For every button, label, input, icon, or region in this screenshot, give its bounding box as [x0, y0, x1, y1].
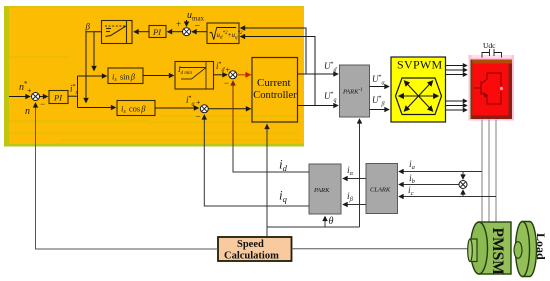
inverter block	[469, 55, 515, 121]
hexagon space vector diagram	[396, 78, 442, 115]
wire iq feedback PARK to iq* junction	[204, 115, 309, 206]
svg-text:PARK: PARK	[313, 187, 330, 194]
coupling between PMSM and load	[514, 242, 522, 259]
sqrt(ud^2+uq^2) block	[207, 23, 243, 44]
wire iq* junction to current controller	[209, 108, 251, 110]
svg-text:−: −	[196, 112, 201, 122]
wire is* split vertical	[77, 76, 79, 108]
current controller block	[252, 58, 298, 123]
svg-text:PI: PI	[152, 27, 162, 37]
wire Ub* PARK-1 to SVPWM	[370, 109, 390, 111]
speed calculation block	[218, 237, 292, 262]
CLARK block	[366, 164, 398, 214]
svg-text:Speed: Speed	[237, 239, 264, 250]
theta wire horizontal	[267, 226, 360, 228]
wire PI to saturation block	[134, 31, 149, 33]
saturation limiter block (beta)	[102, 21, 133, 44]
svg-text:Current: Current	[257, 77, 291, 89]
current sensor junction ib	[459, 172, 467, 197]
PMSM motor body	[471, 222, 512, 274]
wire junction to PI	[168, 31, 183, 33]
wire Ua* PARK-1 to SVPWM	[370, 86, 390, 88]
svg-text:−: −	[195, 21, 201, 32]
phase line c	[495, 120, 497, 226]
svg-text:CLARK: CLARK	[370, 187, 391, 194]
theta wire to PARK-1	[359, 119, 361, 227]
svg-text:PMSM: PMSM	[489, 228, 506, 276]
wire Uq* CC to PARK-1	[298, 105, 339, 107]
wire id* junction to current controller (red arrow)	[237, 74, 251, 76]
SVPWM block	[391, 57, 446, 122]
wire Uq* feedback into sqrt (bottom)	[241, 37, 316, 106]
svg-text:+: +	[196, 98, 201, 107]
IGBT node dot	[500, 87, 503, 90]
block is*sin(beta)	[108, 68, 143, 84]
PI block (voltage loop)	[149, 26, 166, 38]
IGBT symbol inside inverter	[474, 73, 501, 104]
wire beta branch to sin block	[93, 32, 95, 71]
load cylinder	[516, 222, 537, 277]
phase line a	[481, 120, 483, 226]
wire motor shaft to speed calculation	[292, 248, 468, 250]
svg-text:θ: θ	[329, 216, 334, 227]
summing junction iq*	[200, 105, 208, 113]
summing junction id*	[229, 71, 237, 79]
wire Idmin to id* junction	[214, 74, 228, 76]
six gate signal wires SVPWM to inverter	[446, 66, 468, 111]
svg-text:+: +	[176, 19, 181, 29]
wire PI output is*	[68, 95, 78, 97]
phase line b	[488, 120, 490, 226]
wire cos block to iq* junction	[155, 107, 199, 109]
theta wire to current controller	[266, 125, 268, 238]
svg-text:SVPWM: SVPWM	[397, 58, 443, 72]
wire Ud* CC to PARK-1	[298, 73, 339, 75]
svg-text:Controller: Controller	[253, 89, 297, 101]
wire i_alpha CLARK to PARK	[343, 178, 366, 180]
PMSM motor shaft stub	[468, 239, 477, 262]
wire i_beta CLARK to PARK	[343, 204, 366, 206]
wire id feedback PARK to id* junction	[233, 147, 309, 173]
summing junction speed	[32, 93, 40, 101]
wire sqrt to junction	[192, 31, 207, 33]
svg-text:β: β	[85, 22, 91, 32]
PI block speed loop	[49, 91, 68, 104]
wire u_max down into junction	[186, 20, 188, 26]
Id min limiter block	[175, 62, 214, 90]
wire junction to PI speed	[40, 96, 48, 98]
wire ib from sensor to CLARK	[399, 184, 459, 186]
speed feedback wire to n junction	[36, 103, 219, 249]
wire into is*sin(beta)	[78, 75, 107, 77]
wire ic to CLARK	[399, 196, 496, 198]
wire sin block to Idmin block	[143, 75, 174, 77]
orange region artifact streaks	[9, 56, 300, 142]
block is*cos(beta)	[117, 101, 155, 116]
svg-text:Udc: Udc	[483, 41, 496, 50]
PARK block	[309, 164, 341, 214]
n* input wire	[9, 96, 30, 98]
PARK inverse block	[340, 65, 370, 117]
wire ia to CLARK	[399, 171, 482, 173]
wire beta from limiter	[86, 32, 102, 103]
summing junction u_max	[176, 19, 201, 36]
theta arrow into PARK	[324, 217, 326, 228]
svg-text:PI: PI	[53, 93, 63, 103]
svg-text:−: −	[224, 78, 229, 88]
wire into is*cos(beta)	[78, 107, 116, 109]
svg-text:n: n	[25, 106, 30, 117]
svg-text:Calculatiom: Calculatiom	[224, 251, 279, 262]
orange control region background	[4, 6, 304, 147]
wire Ud* feedback into sqrt (top)	[241, 28, 307, 74]
svg-text:Load: Load	[534, 233, 548, 260]
svg-text:−: −	[40, 99, 45, 109]
Udc dc-link capacitor symbol	[482, 49, 502, 58]
svg-text:+: +	[27, 86, 32, 95]
